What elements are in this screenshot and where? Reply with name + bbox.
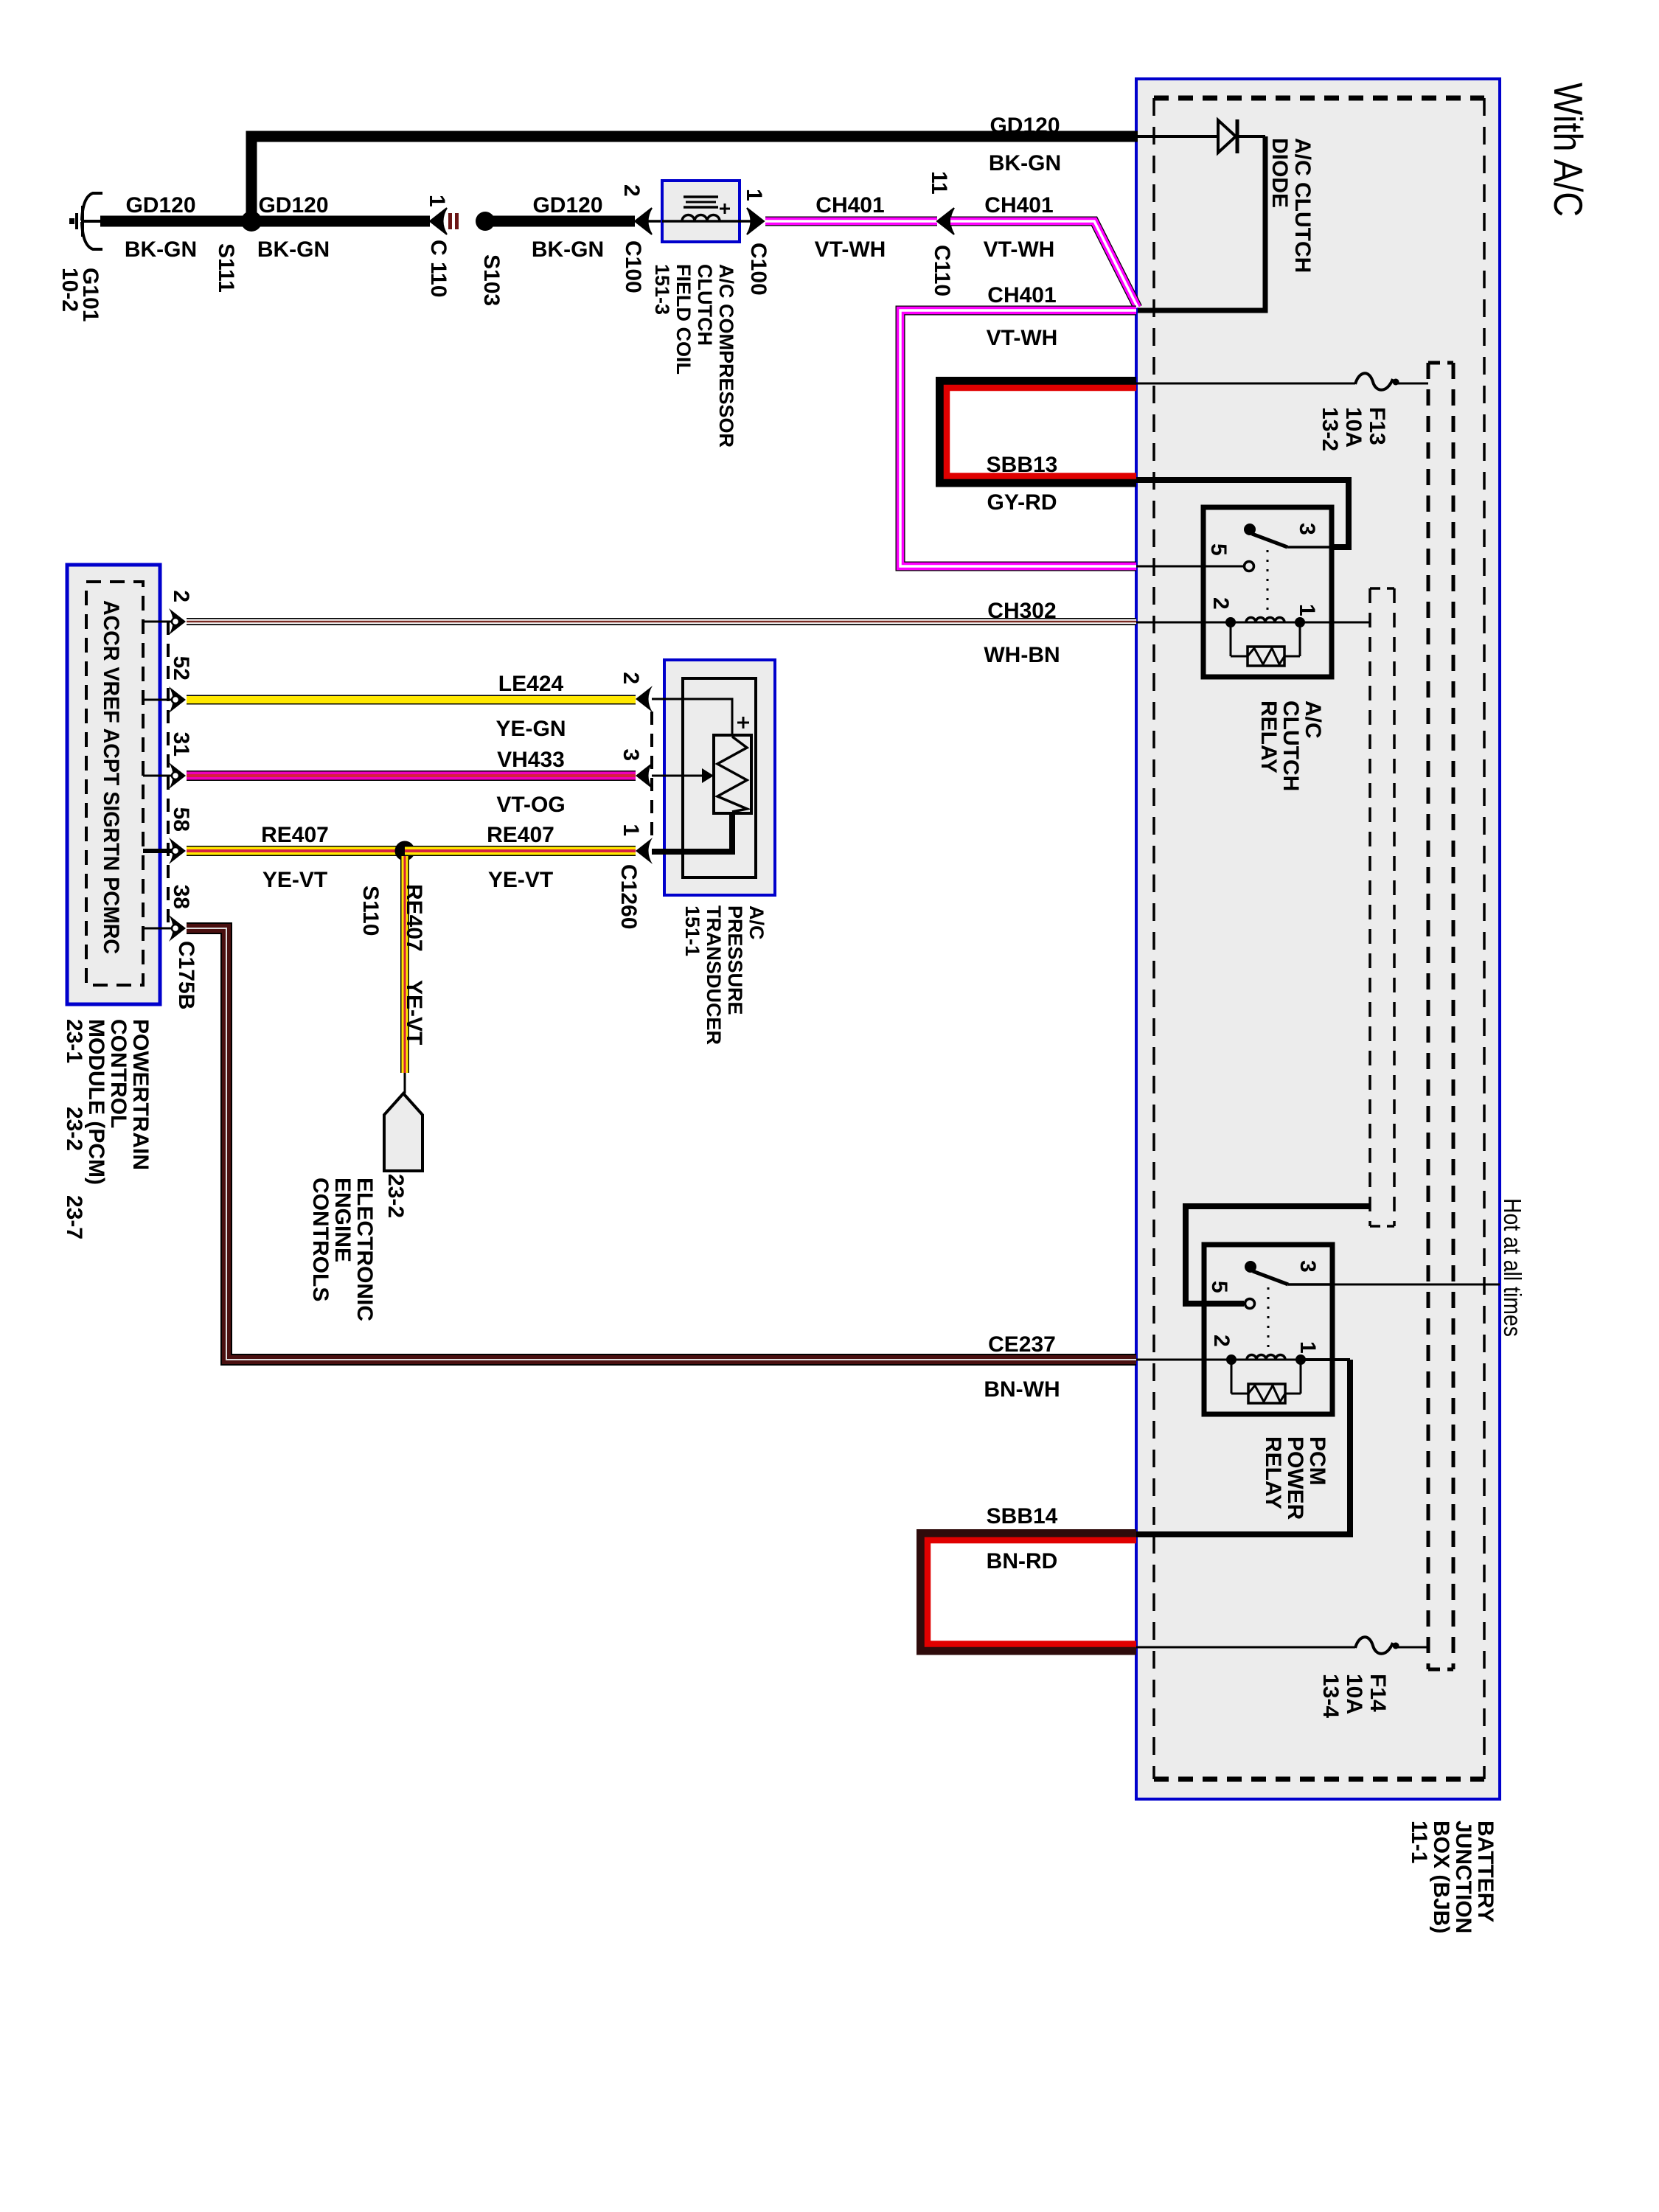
svg-text:Hot at all times: Hot at all times: [1499, 1198, 1526, 1337]
wire CH302 (PCM pin2 to relay): [187, 618, 1136, 625]
svg-text:CONTROL: CONTROL: [106, 1019, 131, 1128]
svg-text:11: 11: [927, 171, 951, 195]
C110 connector bars: [448, 213, 452, 229]
connector C1260 dashed line: [650, 712, 653, 838]
svg-text:1: 1: [1295, 1341, 1320, 1354]
svg-text:151-1: 151-1: [681, 905, 703, 956]
wire GD120 segment 3 (S103 to C100): [485, 216, 635, 227]
svg-text:WH-BN: WH-BN: [984, 643, 1060, 667]
svg-text:23-2: 23-2: [383, 1174, 408, 1218]
PCM pin 31: [143, 775, 173, 777]
svg-text:LE424: LE424: [498, 672, 564, 696]
wire CH401 (C100 to C110): [765, 217, 937, 226]
splice S111: [241, 211, 262, 232]
svg-text:ENGINE: ENGINE: [330, 1178, 355, 1262]
transducer pin 2 arrow: [636, 686, 653, 712]
svg-text:A/C COMPRESSOR: A/C COMPRESSOR: [715, 264, 737, 448]
relay coil: [1231, 622, 1300, 624]
svg-text:RELAY: RELAY: [1256, 700, 1281, 773]
A/C clutch relay pin1 wire to bus: [1300, 622, 1370, 624]
PCM pin 2: [143, 621, 173, 623]
svg-text:1: 1: [619, 824, 643, 836]
connector C110 pin 1 arrow: [430, 208, 447, 234]
wire VH433 (PCM 31 to transducer 3): [187, 771, 636, 781]
svg-text:2: 2: [619, 672, 643, 684]
svg-text:C100: C100: [621, 240, 645, 293]
A/C pressure transducer: [664, 660, 775, 895]
svg-text:58: 58: [169, 807, 193, 832]
off-page connector: electronic engine controls: [404, 1073, 406, 1093]
svg-text:BK-GN: BK-GN: [257, 237, 330, 262]
svg-text:23-2: 23-2: [62, 1107, 86, 1151]
ground G101 symbol: [83, 220, 100, 223]
svg-text:38: 38: [169, 885, 193, 909]
svg-text:10-2: 10-2: [58, 268, 82, 312]
wire SBB13 (GY-RD): [940, 381, 1137, 484]
svg-text:10A: 10A: [1342, 1674, 1366, 1714]
svg-text:RE407: RE407: [487, 823, 554, 847]
relay switch: [1245, 1261, 1256, 1273]
relay pin 5 contact: [1245, 562, 1254, 571]
svg-text:With A/C: With A/C: [1545, 83, 1591, 217]
wire CE237 (PCM 38 to PCM power relay): [187, 928, 1136, 1360]
transducer pin 3 arrow: [636, 762, 653, 789]
svg-text:RE407: RE407: [261, 823, 329, 847]
svg-text:3: 3: [1295, 1260, 1320, 1273]
svg-text:DIODE: DIODE: [1267, 138, 1292, 208]
relay pin 5 contact: [1245, 1299, 1255, 1309]
svg-text:S103: S103: [479, 254, 504, 306]
svg-text:C110: C110: [930, 245, 954, 296]
svg-text:13-2: 13-2: [1318, 407, 1342, 451]
svg-text:C 110: C 110: [426, 240, 451, 297]
svg-text:13-4: 13-4: [1318, 1674, 1343, 1718]
svg-text:BN-RD: BN-RD: [987, 1549, 1058, 1573]
svg-text:5: 5: [1207, 1281, 1231, 1293]
svg-text:S111: S111: [214, 243, 238, 293]
svg-text:GD120: GD120: [990, 114, 1060, 138]
svg-text:BOX (BJB): BOX (BJB): [1429, 1820, 1453, 1933]
svg-text:CONTROLS: CONTROLS: [308, 1178, 333, 1301]
svg-text:151-3: 151-3: [651, 264, 673, 315]
connector C100 pin 2 arrow: [635, 208, 652, 234]
svg-text:JUNCTION: JUNCTION: [1451, 1820, 1475, 1933]
svg-text:2: 2: [1208, 597, 1233, 610]
svg-text:F14: F14: [1366, 1674, 1390, 1712]
svg-text:VT-WH: VT-WH: [987, 326, 1058, 350]
A/C clutch diode: [1138, 135, 1218, 138]
wire SBB14 (BN-RD): [921, 1534, 1137, 1652]
svg-text:3: 3: [1295, 523, 1319, 535]
svg-text:CH302: CH302: [987, 599, 1056, 623]
A/C clutch relay feed wire: [1136, 480, 1349, 547]
svg-text:GY-RD: GY-RD: [987, 490, 1057, 515]
svg-text:1: 1: [425, 195, 449, 207]
splice S103: [476, 212, 495, 231]
svg-text:2: 2: [169, 590, 193, 602]
relay resistor: [1230, 622, 1232, 656]
wire CH401 loop (to A/C clutch relay pin 5): [900, 310, 1136, 566]
svg-text:GD120: GD120: [125, 193, 195, 218]
battery junction box (BJB): [1136, 79, 1500, 1799]
svg-text:BK-GN: BK-GN: [125, 237, 197, 262]
svg-text:YE-VT: YE-VT: [262, 868, 327, 892]
connector C100 pin 1 arrow: [740, 220, 751, 223]
svg-text:CLUTCH: CLUTCH: [694, 264, 716, 346]
svg-text:ACCR VREF ACPT SIGRTN PCMR: ACCR VREF ACPT SIGRTN PCMRC: [99, 600, 123, 954]
svg-text:FIELD COIL: FIELD COIL: [672, 264, 695, 375]
svg-text:S110: S110: [358, 886, 383, 936]
relay resistor: [1231, 1360, 1233, 1394]
PCM power relay pin3 wire (hot at all times): [1288, 1284, 1500, 1286]
PCM pin 52: [143, 699, 173, 701]
svg-text:RE407: RE407: [402, 884, 426, 952]
svg-text:3: 3: [619, 748, 643, 761]
relay switch: [1244, 524, 1256, 535]
svg-text:F13: F13: [1365, 407, 1389, 445]
wire RE407 (PCM 58 to S110): [187, 846, 405, 856]
svg-text:5: 5: [1206, 543, 1231, 556]
svg-text:11-1: 11-1: [1407, 1820, 1431, 1863]
svg-text:1: 1: [742, 189, 766, 201]
transducer pin 1 arrow: [636, 838, 653, 864]
svg-text:PRESSURE: PRESSURE: [724, 905, 746, 1015]
wire LE424 (PCM 52 to transducer 2): [187, 695, 636, 705]
svg-text:10A: 10A: [1341, 407, 1366, 448]
relay: A/C clutch relay: [1203, 507, 1332, 677]
PCM connector (powertrain control module): [67, 565, 160, 1004]
PCM power relay pin1 output to SBB14: [1301, 1358, 1350, 1361]
A/C clutch relay pin5 wire: [1136, 566, 1244, 568]
svg-text:YE-VT: YE-VT: [402, 980, 426, 1045]
relay bus dashed box: [1368, 588, 1371, 1226]
svg-text:CH401: CH401: [984, 193, 1053, 218]
svg-text:C175B: C175B: [174, 941, 198, 1009]
svg-text:GD120: GD120: [532, 193, 602, 218]
svg-text:C100: C100: [746, 243, 771, 296]
splice S110: [395, 841, 415, 861]
transducer pin 2 wire: [652, 699, 732, 735]
svg-text:23-7: 23-7: [62, 1195, 86, 1239]
transducer pin 3 wire (wiper): [652, 775, 703, 777]
svg-text:VT-OG: VT-OG: [496, 793, 565, 817]
PCM pin 38: [143, 928, 173, 930]
svg-text:VH433: VH433: [497, 748, 565, 772]
svg-text:A/C: A/C: [1301, 700, 1325, 739]
wire GD120 branch (S111 up to BJB): [251, 136, 1138, 226]
A/C compressor clutch field coil: [662, 181, 740, 242]
BJB inner dashed boundary: [1154, 96, 1484, 101]
svg-text:CE237: CE237: [988, 1332, 1056, 1357]
svg-text:BK-GN: BK-GN: [532, 237, 604, 262]
svg-text:CH401: CH401: [987, 283, 1056, 307]
wire RE407 (S110 to transducer 1): [405, 846, 636, 856]
svg-text:A/C: A/C: [745, 905, 768, 940]
transducer pin 1 wire: [652, 813, 732, 852]
svg-text:YE-GN: YE-GN: [495, 717, 566, 741]
svg-text:VT-WH: VT-WH: [815, 237, 886, 262]
fuse bus dashed box: [1427, 363, 1430, 1669]
svg-text:SBB13: SBB13: [987, 453, 1058, 477]
connector C175B dashed line: [167, 622, 170, 928]
svg-text:1: 1: [1295, 604, 1319, 616]
svg-text:C1260: C1260: [616, 864, 641, 929]
svg-text:BATTERY: BATTERY: [1473, 1820, 1498, 1922]
PCM power relay pin5 feed wire: [1186, 1206, 1370, 1304]
svg-text:52: 52: [169, 656, 193, 681]
svg-text:PCM: PCM: [1305, 1436, 1329, 1486]
svg-text:2: 2: [1209, 1335, 1234, 1347]
svg-text:ELECTRONIC: ELECTRONIC: [352, 1178, 377, 1321]
svg-text:POWER: POWER: [1283, 1436, 1307, 1520]
connector C110 pin 11 arrow: [937, 208, 954, 234]
svg-text:23-1: 23-1: [62, 1019, 86, 1063]
svg-text:BK-GN: BK-GN: [989, 151, 1061, 175]
svg-text:POWERTRAIN: POWERTRAIN: [128, 1019, 153, 1170]
transducer resistor: [714, 735, 751, 813]
relay: PCM power relay: [1204, 1245, 1332, 1414]
wire GD120 segment 1 (ground to S111): [100, 216, 430, 227]
svg-text:BN-WH: BN-WH: [984, 1377, 1060, 1402]
svg-text:CLUTCH: CLUTCH: [1279, 700, 1303, 791]
svg-text:RELAY: RELAY: [1261, 1436, 1285, 1509]
svg-text:TRANSDUCER: TRANSDUCER: [703, 905, 725, 1045]
fuse F14: [1136, 1646, 1355, 1649]
svg-text:31: 31: [169, 732, 193, 757]
wire CH401 (C110 to BJB, with jog): [950, 221, 1138, 307]
fuse F13: [1136, 383, 1355, 385]
relay coil: [1231, 1359, 1301, 1361]
svg-text:2: 2: [619, 184, 644, 197]
svg-text:YE-VT: YE-VT: [488, 868, 553, 892]
svg-text:A/C CLUTCH: A/C CLUTCH: [1290, 138, 1315, 273]
svg-text:SBB14: SBB14: [987, 1504, 1058, 1528]
svg-text:CH401: CH401: [815, 193, 884, 218]
svg-text:GD120: GD120: [258, 193, 328, 218]
wire RE407 branch (S110 down to off-page): [400, 856, 409, 1073]
PCM pin 58: [143, 849, 173, 853]
svg-text:MODULE (PCM): MODULE (PCM): [84, 1019, 108, 1185]
PCM power relay pin2 wire (CE237 inside BJB): [1136, 1359, 1231, 1361]
svg-text:VT-WH: VT-WH: [984, 237, 1055, 262]
A/C clutch relay pin2 wire (CH302 inside BJB): [1136, 622, 1231, 624]
